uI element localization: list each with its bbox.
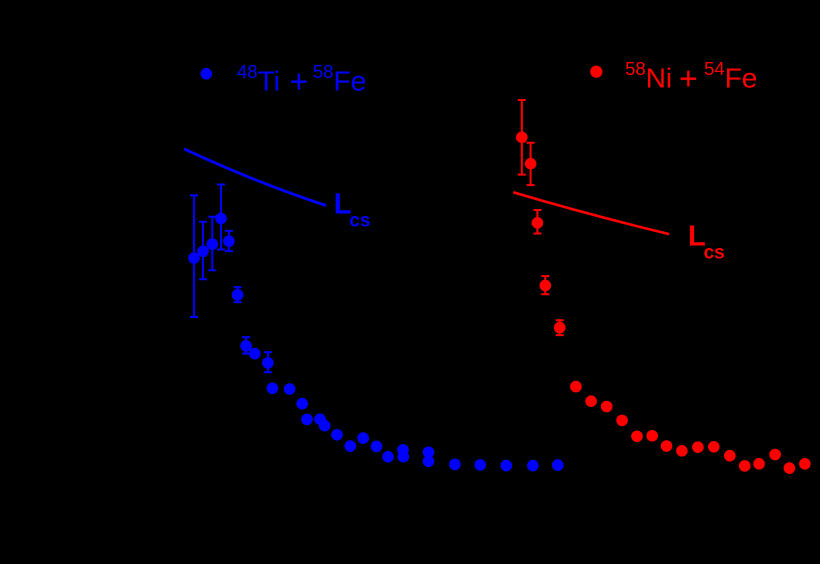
svg-text:Fe: Fe xyxy=(334,65,367,96)
svg-text:58: 58 xyxy=(313,61,334,82)
svg-text:58: 58 xyxy=(625,58,646,79)
svg-text:cs: cs xyxy=(704,243,725,264)
svg-text:54: 54 xyxy=(704,58,725,79)
svg-text:48: 48 xyxy=(237,61,258,82)
svg-text:Ti: Ti xyxy=(258,65,280,96)
svg-text:Fe: Fe xyxy=(725,63,758,94)
svg-text:Ni: Ni xyxy=(646,63,672,94)
svg-text:cs: cs xyxy=(349,211,370,232)
svg-text:+: + xyxy=(679,61,698,97)
svg-text:+: + xyxy=(290,64,309,100)
